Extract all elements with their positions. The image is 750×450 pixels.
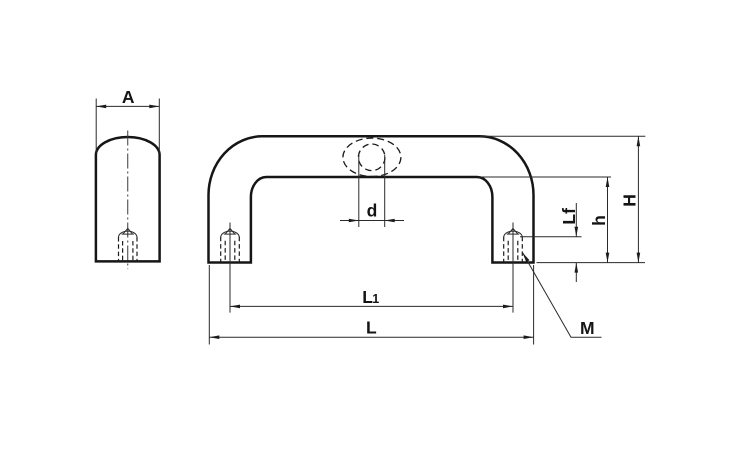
dim H arrow top xyxy=(637,136,641,146)
dim Lf upper line xyxy=(575,203,577,237)
dim L arrow left xyxy=(209,335,219,339)
dim L1 arrow right xyxy=(503,305,513,309)
side view tapped hole outer thread line right xyxy=(136,237,138,262)
right screw drill line right xyxy=(517,241,519,262)
right screw cone tip xyxy=(508,228,518,234)
dim A arrow left xyxy=(96,105,106,109)
left screw centerline xyxy=(229,223,231,313)
dim A extension line right xyxy=(158,99,160,154)
thread top extension line xyxy=(520,236,582,238)
left screw flat line xyxy=(224,233,236,235)
top edge extension line xyxy=(480,135,645,137)
dim L extension line left xyxy=(208,265,210,345)
svg-text:Lf: Lf xyxy=(559,208,579,225)
dim d extension line left xyxy=(358,155,360,227)
svg-text:M: M xyxy=(580,318,595,338)
dim L arrow right xyxy=(524,335,534,339)
right screw flat line xyxy=(507,233,519,235)
grip through hole ellipse xyxy=(343,138,401,176)
left screw outer thread line left xyxy=(220,237,222,262)
dim A line xyxy=(96,105,159,107)
side view tapped hole cone tip xyxy=(123,228,133,234)
bottom edge extension line xyxy=(537,262,646,264)
right screw drill line left xyxy=(507,241,509,262)
dim d arrow left xyxy=(349,219,359,223)
left screw cone tip xyxy=(225,228,235,234)
svg-text:h: h xyxy=(589,215,609,226)
dim L1 arrow left xyxy=(230,305,240,309)
side view tapped hole outer thread line left xyxy=(118,237,120,262)
inner top edge extension line xyxy=(478,176,611,178)
svg-text:H: H xyxy=(619,194,639,207)
dim d line xyxy=(340,220,404,222)
dim d arrow right xyxy=(385,219,395,223)
front view handle outline xyxy=(209,136,534,262)
dim H line xyxy=(637,136,639,262)
side view centerline xyxy=(127,131,129,270)
side view tapped hole flat line xyxy=(122,233,134,235)
dim A extension line left xyxy=(95,99,97,154)
dim L1 line xyxy=(230,305,513,307)
grip through hole circle xyxy=(358,144,385,171)
dim h line xyxy=(607,177,609,263)
dim Lf lower line xyxy=(575,263,577,282)
dim Lf arrow lower xyxy=(575,263,579,273)
right screw centerline xyxy=(512,223,514,313)
left screw outer thread line right xyxy=(238,237,240,262)
left screw drill line left xyxy=(224,241,226,262)
svg-text:L: L xyxy=(366,318,377,338)
dim d extension line right xyxy=(384,155,386,227)
side view tapped hole drill line left xyxy=(122,241,124,262)
dim H arrow bottom xyxy=(637,253,641,263)
svg-text:1: 1 xyxy=(372,292,379,306)
svg-text:A: A xyxy=(122,87,135,107)
dim A arrow right xyxy=(149,105,159,109)
dim h arrow bottom xyxy=(606,253,610,263)
side view tapped hole drill line right xyxy=(132,241,134,262)
dim L line xyxy=(209,336,533,338)
dim L extension line right xyxy=(533,265,535,345)
svg-text:d: d xyxy=(367,201,378,221)
left screw cap arc xyxy=(221,231,240,237)
dim Lf arrow upper xyxy=(575,227,579,237)
dim h arrow top xyxy=(606,177,610,187)
right screw cap arc xyxy=(504,231,523,237)
side view tapped hole cap arc xyxy=(119,231,138,237)
side view body outline xyxy=(96,137,160,261)
right screw outer thread line left xyxy=(503,237,505,262)
left screw drill line right xyxy=(234,241,236,262)
thread callout leader arrow xyxy=(523,253,530,263)
thread callout leader line xyxy=(523,253,602,338)
right screw outer thread line right xyxy=(521,237,523,262)
